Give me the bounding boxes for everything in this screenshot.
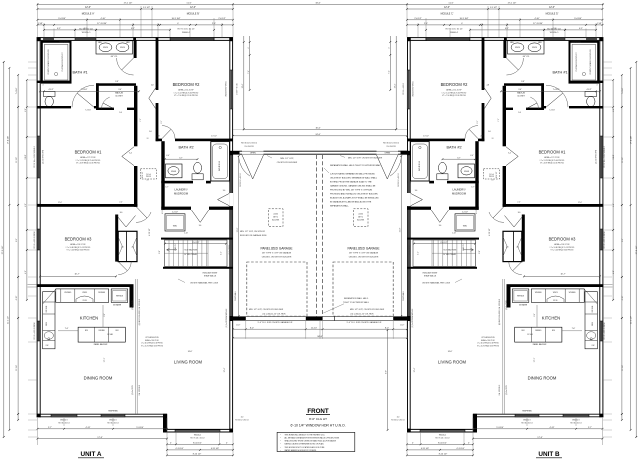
svg-text:V3048: V3048 xyxy=(171,171,176,173)
separation wall paragraph leader xyxy=(324,168,329,173)
svg-text:REF3618: REF3618 xyxy=(116,296,123,298)
unit A kitchen north wall (bedroom #3 south) xyxy=(40,284,134,287)
unit A stair treads xyxy=(168,240,170,266)
svg-text:RO 36 1/2 x 82 1/2: RO 36 1/2 x 82 1/2 xyxy=(240,173,242,186)
unit A refrigerator alcove wall xyxy=(130,287,134,308)
unit A hall arch xyxy=(136,207,147,219)
svg-text:9'-9": 9'-9" xyxy=(386,370,388,374)
svg-text:4'-10": 4'-10" xyxy=(622,295,624,300)
svg-text:VT = 5.40 REQD 8.06 PROVD: VT = 5.40 REQD 8.06 PROVD xyxy=(67,250,91,252)
svg-text:7 3/4" MAX RISE: 7 3/4" MAX RISE xyxy=(184,248,199,251)
svg-text:BEDROOM #1: BEDROOM #1 xyxy=(75,150,103,155)
svg-text:8'-10 1/2": 8'-10 1/2" xyxy=(439,454,448,456)
svg-text:17'-1": 17'-1" xyxy=(534,357,536,362)
unit B interior dim bath2 xyxy=(443,158,476,160)
svg-text:17'-1": 17'-1" xyxy=(104,357,106,362)
unit A basement stairs xyxy=(165,240,228,266)
unit B vanity area door xyxy=(506,58,523,75)
svg-text:3-0: 3-0 xyxy=(241,417,244,419)
unit A window W2436 over shower xyxy=(44,38,54,40)
unit B right margin dim line 4 xyxy=(612,80,614,300)
unit A bottom dimension row 1 dining xyxy=(38,428,168,430)
svg-text:(3) 1-3/4x11.25" LVL HDR: (3) 1-3/4x11.25" LVL HDR xyxy=(351,314,374,316)
svg-text:(2) 2x4 DPM: (2) 2x4 DPM xyxy=(506,300,508,310)
svg-text:4'-6 1/2": 4'-6 1/2" xyxy=(476,208,478,214)
unit B laundry south wall left xyxy=(449,207,479,210)
unit A bottom dimension row 2 xyxy=(38,438,168,440)
svg-text:EXTEND FROM THE GARAGE SLAB TO: EXTEND FROM THE GARAGE SLAB TO THE xyxy=(330,180,372,183)
unit A laundry south wall left xyxy=(161,207,191,210)
unit A exterior front wall at dining xyxy=(37,414,167,417)
unit A left margin margin cross ticks xyxy=(26,106,28,108)
svg-text:8'-6 1/2": 8'-6 1/2" xyxy=(193,242,200,244)
unit A post at bedroom1 south wall xyxy=(37,204,41,207)
svg-text:6'-7": 6'-7" xyxy=(165,187,169,189)
svg-text:4'-5": 4'-5" xyxy=(57,28,61,30)
top dimension row 1 overall xyxy=(38,3,604,5)
garage front wall right corner post xyxy=(393,316,407,320)
svg-text:ON-SITE BY BUILDER. SEPARATION: ON-SITE BY BUILDER. SEPARATION WALL SHAL… xyxy=(330,176,378,179)
svg-text:7'-6": 7'-6" xyxy=(572,328,576,330)
unit A left margin outer dim line xyxy=(3,62,5,437)
unit B bottom dimension row 2 xyxy=(473,438,603,440)
svg-text:24: 24 xyxy=(147,180,149,182)
svg-text:7'-4": 7'-4" xyxy=(388,70,390,74)
unit B right margin dim line 2 xyxy=(630,68,632,430)
svg-text:3'-0 DOOR: 3'-0 DOOR xyxy=(244,146,254,148)
unit B bedroom #2 west wall lower xyxy=(482,103,485,141)
svg-text:STAIR WALLS: STAIR WALLS xyxy=(204,274,217,277)
unit A post at bath1 wall xyxy=(37,106,41,109)
unit B top extension lines xyxy=(602,3,604,37)
svg-text:WALK-IN: WALK-IN xyxy=(517,92,525,95)
unit A washer/dryer xyxy=(165,214,185,231)
unit B bottom extension lines xyxy=(602,418,604,445)
svg-text:27'-1 1/2": 27'-1 1/2" xyxy=(124,3,133,5)
unit A bath #2 north wall left stub xyxy=(156,139,162,142)
unit A garage door opening front xyxy=(246,315,306,317)
svg-text:RO 36 x 61 1/2: RO 36 x 61 1/2 xyxy=(235,83,237,94)
unit A front wall step jog xyxy=(163,414,167,433)
unit A walk-in closet north wall xyxy=(96,83,136,86)
unit A kitchen island xyxy=(78,327,125,342)
svg-text:B24: B24 xyxy=(85,330,88,332)
unit B window W2436 over shower xyxy=(587,38,597,40)
unit A window W6040-2 living room xyxy=(175,430,220,432)
unit B bath #2 south wall stub xyxy=(429,181,434,184)
svg-text:RO 36 x 61 1/2 W3050: RO 36 x 61 1/2 W3050 xyxy=(604,322,606,339)
svg-text:3-0: 3-0 xyxy=(488,131,491,133)
unit A window at kitchen sink xyxy=(37,321,40,341)
svg-text:8'-5": 8'-5" xyxy=(622,238,624,242)
unit A bedroom #3 east wall xyxy=(115,215,118,262)
unit A bath #2 door xyxy=(162,126,175,139)
svg-text:2'-10": 2'-10" xyxy=(452,233,456,235)
unit B kitchen corner cabinet diagonal xyxy=(584,289,597,304)
svg-text:17'-3": 17'-3" xyxy=(537,437,543,439)
unit A post at vanity wall xyxy=(133,37,136,41)
svg-text:WATER HEATER & BOILER BY OTHER: WATER HEATER & BOILER BY OTHERS. xyxy=(285,449,318,452)
unit A bath #2 south wall stub xyxy=(206,181,211,184)
svg-text:IN GARAGE ATTIC ABOVE AND ALON: IN GARAGE ATTIC ABOVE AND ALONG THE xyxy=(330,201,372,204)
unit B garage door opening front xyxy=(323,315,394,317)
svg-text:21'-2 1/2": 21'-2 1/2" xyxy=(7,316,9,324)
svg-text:24: 24 xyxy=(492,138,494,140)
svg-text:7'-4 3/4": 7'-4 3/4" xyxy=(81,89,88,91)
svg-text:PROTECTED BY MIN. 5/8" TYPE 'X: PROTECTED BY MIN. 5/8" TYPE 'X' GYPSUM xyxy=(330,190,372,192)
svg-text:ACCESS: ACCESS xyxy=(357,219,365,222)
svg-text:(2) 2x4 DPM: (2) 2x4 DPM xyxy=(229,245,231,255)
svg-text:CURTAIN ROD/SPLINT: CURTAIN ROD/SPLINT xyxy=(575,52,578,72)
svg-text:(2) JACKS EA SIDE, EA. MODULE: (2) JACKS EA SIDE, EA. MODULE xyxy=(138,298,141,325)
unit A stair down arrow xyxy=(167,249,178,251)
unit A corner post NW xyxy=(37,37,41,41)
unit A window bedroom #2 side xyxy=(230,70,233,109)
svg-text:6'-7": 6'-7" xyxy=(471,187,475,189)
svg-text:KITCHEN/LIV/DIN: KITCHEN/LIV/DIN xyxy=(145,337,159,339)
unit B corner post SW xyxy=(599,414,603,417)
unit B exterior front wall at living room xyxy=(407,429,477,432)
unit A top dimension row 5 xyxy=(38,24,234,26)
svg-text:TIGHT TO EXTERIOR WALL: TIGHT TO EXTERIOR WALL xyxy=(343,301,370,304)
svg-text:2-8: 2-8 xyxy=(480,135,483,137)
svg-text:17'-11 3/4": 17'-11 3/4" xyxy=(97,23,107,25)
unit B bath #2 south wall left xyxy=(447,181,479,184)
svg-text:16'-6": 16'-6" xyxy=(315,128,320,130)
svg-text:V3024: V3024 xyxy=(532,47,537,49)
unit A bedroom #1 east wall upper xyxy=(134,86,137,147)
svg-text:11'-10": 11'-10" xyxy=(311,327,317,329)
unit B bath #2 toilet xyxy=(437,174,448,180)
svg-text:11'-1/4": 11'-1/4" xyxy=(622,365,624,371)
svg-text:16'-6": 16'-6" xyxy=(188,351,193,353)
svg-text:BATH #1: BATH #1 xyxy=(72,71,87,75)
svg-text:8'-5": 8'-5" xyxy=(16,238,18,242)
svg-text:EA. MODULE: EA. MODULE xyxy=(138,384,141,395)
unit B bedroom #2 door xyxy=(484,88,491,98)
garage dim row 2 xyxy=(233,337,407,339)
unit A vanity partition wall xyxy=(134,40,137,58)
svg-text:UNIT A: UNIT A xyxy=(80,451,101,458)
svg-text:B15 SINK: B15 SINK xyxy=(46,306,48,313)
svg-text:8'-10 1/2": 8'-10 1/2" xyxy=(193,443,202,445)
svg-text:PANELIZED GARAGE: PANELIZED GARAGE xyxy=(260,246,292,250)
unit A garage-side wall gyp band xyxy=(230,155,233,316)
svg-text:9'-0" R.O. FOR ON-SITE GARAGE: 9'-0" R.O. FOR ON-SITE GARAGE DR xyxy=(258,321,293,324)
svg-text:SHALL EXCEED THOSE LISTED IN T: SHALL EXCEED THOSE LISTED IN TABLE R302.… xyxy=(285,440,337,443)
svg-text:AREA = 172.22 SF: AREA = 172.22 SF xyxy=(80,156,96,159)
unit B bath #1 south wall right part xyxy=(542,106,547,108)
unit A corner post SE xyxy=(229,429,233,433)
unit B stair down arrow xyxy=(463,249,474,251)
unit B bedroom #2 west wall upper xyxy=(482,40,485,90)
svg-text:W6040-2: W6040-2 xyxy=(182,32,191,34)
unit B right margin dim line 3 xyxy=(621,75,623,420)
unit B garage slab dashed outline xyxy=(333,262,393,316)
svg-text:4'-2": 4'-2" xyxy=(613,270,615,274)
svg-text:KITCHEN/LIV/DIN: KITCHEN/LIV/DIN xyxy=(481,337,495,339)
svg-text:WALK-IN: WALK-IN xyxy=(115,92,123,95)
svg-text:W6040-2: W6040-2 xyxy=(194,434,201,436)
svg-text:6'-7": 6'-7" xyxy=(457,157,461,159)
unit A bath #2 bathtub xyxy=(211,142,230,181)
unit A walk-in closet south wall left xyxy=(96,108,114,110)
svg-text:3'-4": 3'-4" xyxy=(118,89,122,91)
svg-text:MIN. 1/2" GYP, ON SITE BY BUIL: MIN. 1/2" GYP, ON SITE BY BUILDER xyxy=(348,157,383,159)
svg-text:BUILDER ON GARAGE SIDE: BUILDER ON GARAGE SIDE xyxy=(240,234,267,237)
svg-text:21'-2 1/2": 21'-2 1/2" xyxy=(631,316,633,324)
svg-text:60" CD: 60" CD xyxy=(523,56,530,58)
unit B bath #2 door xyxy=(465,126,478,139)
svg-text:RO 36 1/2 x 82 1/2: RO 36 1/2 x 82 1/2 xyxy=(391,420,404,422)
svg-text:1'-1 1/2": 1'-1 1/2" xyxy=(490,7,498,9)
svg-text:CEMENT BOARD SURROUND: CEMENT BOARD SURROUND xyxy=(47,49,50,75)
unit B walk-in closet north wall xyxy=(504,83,544,86)
svg-text:SB30: SB30 xyxy=(592,322,594,326)
unit A module seam line xyxy=(134,279,136,414)
svg-text:17'-4 3/4": 17'-4 3/4" xyxy=(631,136,633,144)
unit A left margin extension ticks to wall xyxy=(28,61,37,63)
svg-text:V3024: V3024 xyxy=(120,47,125,49)
svg-text:5/8" TYPE 'X' GYP ON GARAGE: 5/8" TYPE 'X' GYP ON GARAGE xyxy=(349,252,379,255)
unit B corner post SE xyxy=(407,429,411,433)
svg-text:3-4: 3-4 xyxy=(508,152,511,154)
unit B window W6040-2 bedroom #2 xyxy=(426,38,470,40)
svg-text:9'-0" R.O. FOR ON-SITE GARAGE: 9'-0" R.O. FOR ON-SITE GARAGE DR xyxy=(347,321,382,324)
courtyard dim lines xyxy=(243,36,245,129)
svg-text:2'-7": 2'-7" xyxy=(588,427,592,429)
svg-text:2-0: 2-0 xyxy=(516,247,518,249)
svg-text:PROVIDED AND INSTALLED ON-SITE: PROVIDED AND INSTALLED ON-SITE BY BUILDE… xyxy=(330,193,378,196)
unit A bath #1 toilet xyxy=(44,92,56,97)
unit A stair south wall xyxy=(163,267,233,269)
unit A garage entry door swing xyxy=(242,155,253,179)
svg-text:AREA = 151.20 SF: AREA = 151.20 SF xyxy=(178,89,194,92)
svg-text:34'-6": 34'-6" xyxy=(315,3,320,5)
unit B bedroom #3 closet xyxy=(503,231,522,261)
svg-text:(5) 2x4: (5) 2x4 xyxy=(489,174,494,176)
unit A bedroom #3 door xyxy=(117,216,126,228)
svg-text:3-0: 3-0 xyxy=(397,417,400,419)
svg-text:6'-9": 6'-9" xyxy=(25,108,27,112)
svg-text:3-0: 3-0 xyxy=(223,190,226,192)
unit B module seam line xyxy=(504,279,506,414)
svg-text:3'-0 DOOR: 3'-0 DOOR xyxy=(386,146,396,148)
unit A kitchen corner cabinet diagonal xyxy=(43,289,56,304)
svg-text:2-8: 2-8 xyxy=(487,85,490,87)
svg-text:2'-4": 2'-4" xyxy=(517,202,521,204)
svg-text:2'-6 1/2": 2'-6 1/2" xyxy=(414,18,422,20)
unit B exterior courtyard-side wall xyxy=(408,37,411,432)
unit A top row extra ticks xyxy=(53,24,55,26)
svg-text:5'-1/2": 5'-1/2" xyxy=(613,154,615,159)
unit B walk-in closet south wall left xyxy=(526,108,544,110)
svg-text:BATHTUB 60: BATHTUB 60 xyxy=(418,161,421,171)
svg-text:LT = 13.78 REQD 25.60 PROVD: LT = 13.78 REQD 25.60 PROVD xyxy=(76,160,101,162)
svg-text:MIN. 1/2" GYP, ON SITE BY: MIN. 1/2" GYP, ON SITE BY xyxy=(240,231,266,233)
svg-text:LAUNDRY/: LAUNDRY/ xyxy=(452,188,465,192)
svg-text:8'-0" CLG HT: 8'-0" CLG HT xyxy=(309,417,327,421)
unit A bedroom #1 door xyxy=(122,147,134,157)
unit B exterior top wall xyxy=(407,38,603,41)
svg-text:1'-1/2": 1'-1/2" xyxy=(186,3,191,5)
unit B exterior left wall xyxy=(600,37,603,417)
garage dim row 1 xyxy=(233,328,407,330)
svg-text:RO 36 x 61 1/2 W3050: RO 36 x 61 1/2 W3050 xyxy=(604,231,606,248)
unit A window W2420 over vanity xyxy=(75,38,96,40)
unit B exterior front wall at dining xyxy=(473,414,603,417)
svg-text:12'-6": 12'-6" xyxy=(85,7,91,9)
unit A window W6040-2 bedroom #1 xyxy=(37,136,40,178)
svg-text:CLOSET: CLOSET xyxy=(517,96,525,98)
svg-text:2'-7": 2'-7" xyxy=(48,427,52,429)
garage separation wall (dashed) xyxy=(316,155,318,317)
unit B kitchen north wall (bedroom #3 south) xyxy=(507,284,601,287)
svg-text:W/D: W/D xyxy=(463,226,468,228)
unit B top row extra ticks xyxy=(585,24,587,26)
unit A bedroom #2 door xyxy=(149,88,156,98)
svg-text:V3024: V3024 xyxy=(103,47,108,49)
svg-text:4'-2": 4'-2" xyxy=(25,270,27,274)
svg-text:12'-6": 12'-6" xyxy=(549,7,555,9)
svg-text:PANEL BACKER: PANEL BACKER xyxy=(94,343,108,346)
svg-text:10'-7": 10'-7" xyxy=(74,274,79,276)
unit B right margin extension ticks to wall xyxy=(603,61,612,63)
svg-text:(2) JACKS EA SIDE, EA. MODULE: (2) JACKS EA SIDE, EA. MODULE xyxy=(498,298,501,325)
svg-text:BATH #1: BATH #1 xyxy=(552,71,567,75)
svg-text:FS 30: FS 30 xyxy=(83,300,87,302)
svg-text:V3048: V3048 xyxy=(464,171,469,173)
unit B refrigerator alcove wall xyxy=(507,287,511,308)
unit B window W3050 dining 1 xyxy=(563,414,589,417)
unit A left margin dim line 4 xyxy=(26,80,28,300)
svg-text:RO 74 1/4 x 61 1/2 W6040-2: RO 74 1/4 x 61 1/2 W6040-2 xyxy=(604,146,606,168)
svg-text:4'-11 1/4": 4'-11 1/4" xyxy=(456,448,465,450)
svg-text:W/D: W/D xyxy=(173,226,178,228)
unit A window W3050 dining 1 xyxy=(51,414,77,417)
svg-text:2'-2 1/2": 2'-2 1/2" xyxy=(462,212,469,214)
svg-text:1-HOUR RATED SEPARATION WALL P: 1-HOUR RATED SEPARATION WALL PROVIDED xyxy=(330,172,375,175)
unit B wall below shower xyxy=(570,81,601,83)
svg-text:4'-5": 4'-5" xyxy=(579,28,583,30)
unit A linen closet (dashed shelves) xyxy=(141,169,157,179)
unit B window W3050 dining 2 tempered xyxy=(515,414,539,417)
svg-text:3-0: 3-0 xyxy=(415,190,418,192)
unit A exterior left wall xyxy=(37,37,40,417)
svg-text:W3050 TEMPERED: W3050 TEMPERED xyxy=(226,81,228,97)
svg-text:8'-0": 8'-0" xyxy=(385,327,389,329)
unit A laundry south wall right xyxy=(209,207,233,210)
svg-text:3'-6": 3'-6" xyxy=(479,250,481,254)
unit B bedroom #1 east wall lower xyxy=(503,166,506,207)
unit B stair south wall xyxy=(407,267,477,269)
svg-text:LT = 44.50 REQD 61.34 PROVD: LT = 44.50 REQD 61.34 PROVD xyxy=(477,343,500,345)
unit A top dimension row 4 xyxy=(38,19,234,21)
svg-text:B24: B24 xyxy=(522,330,525,332)
svg-text:MUDROOM: MUDROOM xyxy=(174,191,188,195)
unit B kitchen range hood arc xyxy=(547,296,564,302)
unit A bath #2 west wall xyxy=(161,141,164,183)
unit B stair north wall xyxy=(407,238,479,240)
svg-text:6'-7": 6'-7" xyxy=(179,157,183,159)
unit B window at kitchen sink xyxy=(600,321,603,341)
svg-text:EA. MODULE: EA. MODULE xyxy=(498,384,501,395)
svg-text:12'-0": 12'-0" xyxy=(578,202,583,204)
svg-text:7'-4": 7'-4" xyxy=(248,70,250,74)
unit B laundry south wall right xyxy=(407,207,431,210)
unit A post at shower wall xyxy=(37,81,41,83)
svg-text:ON SITE BY BUILDER: ON SITE BY BUILDER xyxy=(277,162,298,164)
svg-text:REF3618: REF3618 xyxy=(517,296,524,298)
svg-text:3'-1": 3'-1" xyxy=(161,120,163,124)
svg-text:RO 36 1/2 x 82 1/2: RO 36 1/2 x 82 1/2 xyxy=(241,143,257,145)
svg-text:W3070: W3070 xyxy=(553,292,558,294)
unit B garage side door in east wall xyxy=(407,193,411,206)
unit B hall arch xyxy=(493,207,504,219)
svg-text:21'-8": 21'-8" xyxy=(237,227,239,232)
svg-text:W2420-O: W2420-O xyxy=(82,32,91,34)
svg-text:24'-6": 24'-6" xyxy=(315,134,320,136)
unit A bath #1 shower xyxy=(42,42,71,83)
general notes box xyxy=(277,432,355,451)
svg-text:LT = 15.12 REQD 25.60 PROVD: LT = 15.12 REQD 25.60 PROVD xyxy=(174,92,199,94)
unit B post at kitchen wall xyxy=(599,284,603,287)
svg-text:37'-4": 37'-4" xyxy=(414,367,416,372)
svg-text:4'-11": 4'-11" xyxy=(550,427,555,429)
svg-text:MIN. 1/2" GYP,: MIN. 1/2" GYP, xyxy=(280,158,294,160)
svg-text:22x30: 22x30 xyxy=(273,214,278,216)
svg-text:10'-1 3/4": 10'-1 3/4" xyxy=(460,18,469,20)
svg-text:16'-4": 16'-4" xyxy=(242,83,244,88)
svg-text:11'-1/2": 11'-1/2" xyxy=(16,157,18,163)
unit B bath #1 shower xyxy=(570,42,599,83)
svg-text:2-0: 2-0 xyxy=(121,247,123,249)
unit B window W2420 over vanity xyxy=(544,38,565,40)
unit A post at bedroom2 wall xyxy=(156,37,159,41)
unit B bath #1 door xyxy=(546,85,568,107)
svg-text:8'-6 1/2": 8'-6 1/2" xyxy=(441,242,448,244)
svg-text:RO 36 x 61 1/2 W3050: RO 36 x 61 1/2 W3050 xyxy=(34,322,36,339)
unit B attic access xyxy=(354,209,369,227)
svg-text:RO 76 1/4 x 61 1/2: RO 76 1/4 x 61 1/2 xyxy=(190,438,204,440)
unit A kitchen sink xyxy=(44,332,53,340)
unit A garage entry opening white xyxy=(242,150,264,155)
unit B laundry-hall door swing xyxy=(440,210,449,222)
svg-text:B15 SINK: B15 SINK xyxy=(592,306,594,313)
svg-text:ACCESS: ACCESS xyxy=(272,219,280,222)
unit A bath #1 south wall right part xyxy=(94,106,99,108)
unit B bath #2 west wall xyxy=(475,141,478,183)
svg-text:3-4: 3-4 xyxy=(129,152,132,154)
svg-text:VT = 6.89 REQD 12.80 PROVD: VT = 6.89 REQD 12.80 PROVD xyxy=(540,163,565,165)
unit A vanity area door xyxy=(117,58,134,75)
garage rear wall left segment xyxy=(233,151,240,155)
svg-text:RO 76 1/4 x 61 1/2: RO 76 1/4 x 61 1/2 xyxy=(435,438,449,440)
unit B window jamb xyxy=(469,37,470,41)
svg-text:1 1/2": 1 1/2" xyxy=(236,325,241,327)
unit A kitchen base cabinets left xyxy=(43,292,55,349)
svg-text:W2420-O: W2420-O xyxy=(550,32,559,34)
unit A corner post SW xyxy=(37,414,41,417)
unit B post at shower wall xyxy=(599,81,603,83)
garage front wall left corner post xyxy=(233,316,246,320)
unit B bath #1 toilet xyxy=(585,92,597,97)
svg-text:TEMPERED: TEMPERED xyxy=(522,410,533,412)
svg-text:2-8: 2-8 xyxy=(157,135,160,137)
svg-text:INSULATE BSMT: INSULATE BSMT xyxy=(203,272,219,275)
svg-text:AREA = 134.97 SF: AREA = 134.97 SF xyxy=(70,243,86,246)
unit A bedroom #2 west wall upper xyxy=(156,40,159,90)
